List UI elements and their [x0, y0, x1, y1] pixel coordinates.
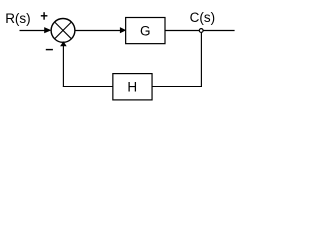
- svg-text:C(s): C(s): [190, 10, 216, 25]
- svg-text:R(s): R(s): [5, 11, 31, 26]
- svg-text:H: H: [127, 80, 137, 95]
- svg-text:G: G: [140, 24, 151, 39]
